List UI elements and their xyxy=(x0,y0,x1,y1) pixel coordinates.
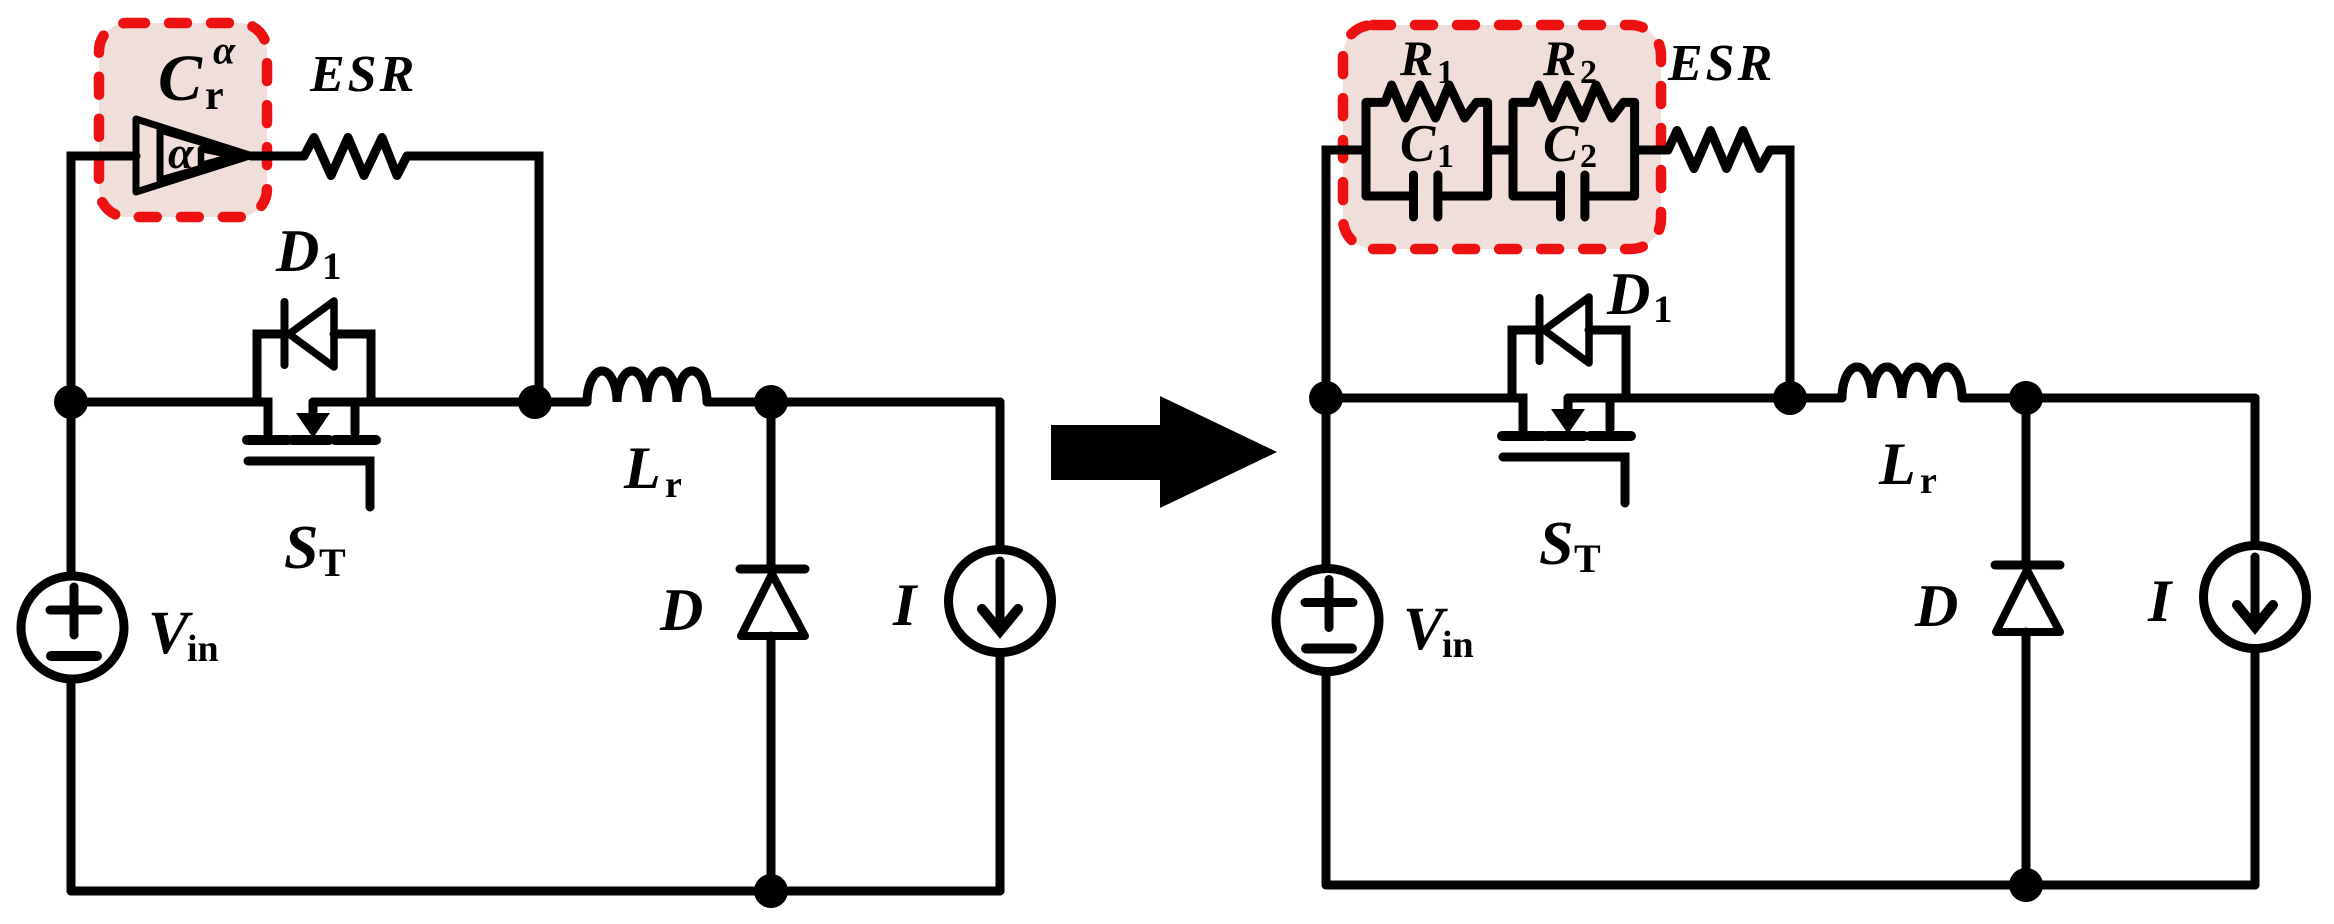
Vin plus sign (left) xyxy=(50,587,98,635)
wire ESR to rail (left) xyxy=(407,156,539,398)
current source I circle (right) xyxy=(2204,546,2307,649)
transistor ST source stub (right) xyxy=(1606,398,1615,429)
svg-text:C: C xyxy=(1400,115,1436,173)
current source I arrow (left) xyxy=(996,561,1005,624)
diode D1 triangle (right) xyxy=(1544,297,1589,363)
inductor Lr (left) xyxy=(587,371,707,402)
wire right branch vertical (left circuit) xyxy=(996,402,1005,891)
svg-text:ESR: ESR xyxy=(309,46,417,103)
resistor R1 xyxy=(1366,85,1488,118)
svg-text:R: R xyxy=(1542,30,1576,86)
svg-text:2: 2 xyxy=(1580,54,1597,91)
svg-text:r: r xyxy=(665,464,682,506)
diode D cathode bar (right) xyxy=(1995,561,2060,570)
Vin minus sign (left) xyxy=(51,651,97,661)
highlight box (right, RC ladder) xyxy=(1343,25,1661,249)
node dot A (left rail / Vin) xyxy=(54,385,88,419)
wire RC to ESR (right) xyxy=(1635,146,1668,155)
svg-text:r: r xyxy=(1920,460,1937,502)
svg-text:1: 1 xyxy=(322,245,342,288)
wire Lr to node C and right corner (left circuit) xyxy=(707,398,1000,407)
transistor ST body arrow (left) xyxy=(309,402,318,414)
diode D1 loop right side (right circuit) xyxy=(1589,330,1626,398)
diode D bottom wire (left) xyxy=(767,636,776,891)
inductor Lr (right) xyxy=(1842,367,1962,398)
node dot B (right, ESR/ST/Lr) xyxy=(1773,381,1807,415)
capacitor Cr (inner triangle) xyxy=(201,149,234,165)
svg-text:L: L xyxy=(623,435,661,501)
diode D1 loop left side (right circuit) xyxy=(1512,330,1536,398)
transistor ST channel bars (right) xyxy=(1502,431,1631,441)
node dot D (left, bottom rail / D) xyxy=(754,874,788,908)
wire between RC cells xyxy=(1488,146,1513,155)
voltage source Vin circle (left) xyxy=(21,576,124,679)
resistor ESR (right) xyxy=(1668,131,1770,169)
wire rail from transistor to node (right circuit) xyxy=(1568,394,1842,403)
current source I circle (left) xyxy=(949,550,1052,653)
wire right branch vertical (right circuit) xyxy=(2251,398,2260,885)
Vin plus sign (right) xyxy=(1305,580,1353,628)
capacitor Cr (middle triangle) xyxy=(160,130,246,180)
svg-text:α: α xyxy=(213,28,236,73)
diode D bottom wire (right) xyxy=(2022,632,2031,885)
node dot A (right rail / Vin) xyxy=(1309,381,1343,415)
node dot C (left, Lr/D) xyxy=(754,385,788,419)
svg-text:in: in xyxy=(1442,624,1474,666)
resistor ESR (left) xyxy=(304,138,407,176)
wire rail from transistor to node B (left circuit) xyxy=(313,398,587,407)
svg-text:T: T xyxy=(319,540,346,585)
node dot D (right, bottom rail / D) xyxy=(2009,868,2043,902)
resistor R2 xyxy=(1513,85,1635,118)
svg-text:r: r xyxy=(205,73,224,119)
current source I arrow (right) xyxy=(2251,557,2260,620)
RC cell 2 right bar xyxy=(1630,102,1639,196)
svg-text:1: 1 xyxy=(1653,288,1673,331)
capacitor C2 plates xyxy=(1561,175,1585,217)
diode D1 loop left side (left circuit) xyxy=(257,334,281,402)
svg-text:D: D xyxy=(659,577,703,643)
wire left top (Vin+ to Cr) xyxy=(71,156,136,160)
svg-text:I: I xyxy=(892,572,919,638)
svg-text:1: 1 xyxy=(1437,54,1454,91)
RC cell 1 left bar xyxy=(1362,102,1371,196)
wire rail to transistor drain (right circuit) xyxy=(1326,398,1523,433)
node dot C (right, Lr/D) xyxy=(2009,381,2043,415)
wire Cr to ESR xyxy=(251,152,304,161)
svg-text:1: 1 xyxy=(1437,138,1454,175)
transistor ST gate (left) xyxy=(248,461,370,507)
RC cell 1 right bar xyxy=(1483,102,1492,196)
voltage source Vin circle (right) xyxy=(1276,569,1379,672)
svg-text:I: I xyxy=(2147,568,2174,634)
svg-text:C: C xyxy=(1543,115,1579,173)
transistor ST source stub (left) xyxy=(351,402,360,433)
diode D triangle (left) xyxy=(741,574,805,636)
svg-text:2: 2 xyxy=(1580,138,1597,175)
svg-text:D: D xyxy=(1606,261,1650,327)
svg-text:S: S xyxy=(284,514,318,582)
wire bottom rail (right circuit) xyxy=(1326,881,2255,890)
big arrow between circuits xyxy=(1051,396,1277,508)
highlight box (left, fractional capacitor) xyxy=(99,23,267,217)
capacitor C1 plates xyxy=(1414,175,1438,217)
wire right-circuit top lead xyxy=(1326,150,1366,154)
diode D anode wire (right) xyxy=(2022,398,2031,562)
capacitor C1 bottom wires xyxy=(1366,192,1488,201)
svg-text:D: D xyxy=(275,218,319,284)
capacitor Cr (fractance outer triangle) xyxy=(136,119,251,192)
diode D cathode bar (left) xyxy=(740,565,805,574)
transistor ST gate (right) xyxy=(1503,457,1625,503)
svg-text:C: C xyxy=(158,42,203,115)
capacitor C2 bottom wires xyxy=(1513,192,1635,201)
svg-text:T: T xyxy=(1574,536,1601,581)
svg-text:α: α xyxy=(168,127,195,178)
Vin minus sign (right) xyxy=(1306,644,1352,654)
diode D triangle (right) xyxy=(1996,570,2060,632)
diode D1 loop right side (left circuit) xyxy=(334,334,371,402)
node dot B (left, ESR/ST/Lr) xyxy=(518,385,552,419)
svg-text:S: S xyxy=(1539,510,1573,578)
svg-text:L: L xyxy=(1878,431,1916,497)
svg-text:in: in xyxy=(187,628,219,670)
wire rail to transistor drain (left circuit) xyxy=(71,402,268,437)
svg-text:R: R xyxy=(1399,30,1433,86)
wire Lr to node and right corner (right circuit) xyxy=(1962,394,2255,403)
transistor ST channel bars (left) xyxy=(247,435,376,445)
wire left vertical (right circuit) xyxy=(1322,150,1331,885)
diode D1 cathode bar (left) xyxy=(281,302,289,365)
svg-text:D: D xyxy=(1914,573,1958,639)
wire left vertical (left circuit) xyxy=(67,156,76,891)
diode D1 cathode bar (right) xyxy=(1536,298,1544,361)
diode D1 triangle (left) xyxy=(289,301,334,367)
wire bottom rail (left circuit) xyxy=(71,887,1000,896)
RC cell 2 left bar xyxy=(1509,102,1518,196)
wire ESR to rail (right) xyxy=(1770,150,1790,394)
diode D anode wire (left) xyxy=(767,402,776,566)
svg-text:ESR: ESR xyxy=(1667,35,1775,92)
transistor ST body arrow (right) xyxy=(1564,398,1573,410)
